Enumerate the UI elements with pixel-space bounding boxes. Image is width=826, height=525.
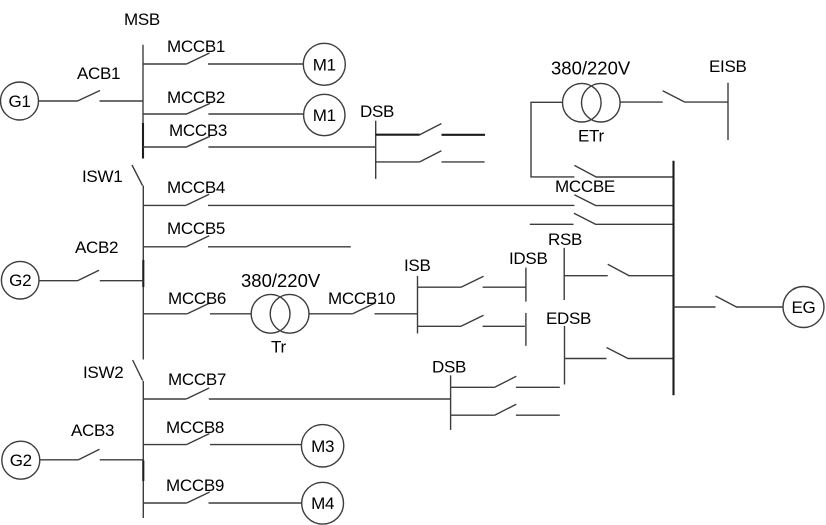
- breaker MCCB8: [143, 418, 224, 445]
- svg-text:EDSB: EDSB: [546, 309, 591, 328]
- switch RSB upper to emergency bus: [574, 213, 596, 224]
- transformer Tr 380/220V: [241, 270, 321, 357]
- svg-text:RSB: RSB: [548, 230, 582, 249]
- motor M1: [303, 43, 345, 85]
- svg-text:MCCB8: MCCB8: [166, 418, 224, 437]
- svg-text:M1: M1: [313, 106, 336, 125]
- wire MCCB1 to M1: [208, 63, 303, 65]
- bus section 2: [142, 186, 144, 360]
- svg-text:MCCB4: MCCB4: [167, 178, 225, 197]
- breaker MCCBE: [555, 165, 615, 196]
- bus IDSB: [509, 249, 547, 346]
- bus DSB upper: [360, 102, 394, 179]
- breaker ACB3: [71, 421, 114, 460]
- svg-text:MCCB5: MCCB5: [167, 219, 225, 238]
- breaker ACB2: [75, 238, 118, 281]
- switch MCCB4 to emergency bus: [574, 195, 596, 206]
- wire G2 to ACB3: [40, 459, 79, 461]
- wire ISB to IDSB upper: [483, 286, 526, 288]
- generator EG: [783, 287, 824, 328]
- breaker MCCB7: [143, 370, 226, 399]
- wire G1 to ACB1: [39, 100, 78, 102]
- breaker MCCB1: [143, 37, 225, 64]
- svg-text:G2: G2: [10, 451, 32, 470]
- wire EG switch to EG: [736, 306, 783, 308]
- bus DSB lower: [432, 358, 466, 430]
- wire ACB3 to bus: [100, 459, 144, 461]
- switch EDSB to emergency bus: [565, 348, 629, 359]
- wire RSB upper to emergency bus: [595, 223, 673, 225]
- wire to emergency bus: [596, 205, 674, 207]
- motor M1 lower: [304, 94, 345, 135]
- bus EDSB: [546, 309, 591, 385]
- bus EISB: [709, 57, 747, 140]
- wire MCCB4 long: [208, 204, 574, 206]
- svg-text:EG: EG: [792, 298, 816, 317]
- switch DSB feeder 2: [376, 151, 442, 162]
- svg-text:ACB1: ACB1: [77, 64, 120, 83]
- svg-text:MCCB2: MCCB2: [167, 88, 225, 107]
- svg-text:MCCBE: MCCBE: [555, 177, 615, 196]
- svg-text:ACB2: ACB2: [75, 238, 118, 257]
- switch DSB lower feeder 2: [451, 404, 517, 415]
- wire DSB feeder 1: [442, 134, 486, 136]
- wire DSB feeder 2: [442, 161, 485, 163]
- svg-text:MCCB3: MCCB3: [169, 121, 227, 140]
- svg-text:DSB: DSB: [432, 358, 466, 377]
- breaker MCCB6: [143, 289, 226, 314]
- wire MCCB10 to ISB: [375, 313, 418, 315]
- emergency bus: [672, 161, 674, 395]
- wire MCCB9 to M4: [209, 502, 302, 504]
- svg-text:380/220V: 380/220V: [551, 58, 631, 79]
- svg-text:MCCB10: MCCB10: [328, 289, 395, 308]
- svg-text:ISW1: ISW1: [82, 167, 122, 186]
- svg-text:M4: M4: [311, 494, 334, 513]
- isolator switch ISW2: [83, 360, 143, 382]
- svg-text:DSB: DSB: [360, 102, 394, 121]
- svg-text:M3: M3: [311, 437, 334, 456]
- svg-text:IDSB: IDSB: [509, 249, 547, 268]
- breaker MCCB4: [143, 178, 225, 205]
- breaker MCCB2: [143, 88, 225, 114]
- svg-text:380/220V: 380/220V: [241, 270, 321, 291]
- wire ETr primary L: [531, 102, 574, 177]
- svg-text:EISB: EISB: [709, 57, 747, 76]
- svg-text:MCCB7: MCCB7: [168, 370, 226, 389]
- switch DSB feeder 1: [376, 124, 442, 135]
- wire MCCB2 to M1: [208, 113, 303, 115]
- bus ISB: [404, 256, 431, 334]
- wire MCCB8 to M3: [210, 444, 302, 446]
- switch EG: [716, 296, 737, 307]
- wire to EISB bus: [685, 101, 728, 103]
- wire DSB lower feeder 2: [516, 414, 560, 416]
- svg-text:MCCB6: MCCB6: [168, 289, 226, 308]
- wire ETr to EISB switch: [620, 101, 663, 103]
- bus RSB: [548, 230, 582, 300]
- wire RSB to emergency bus: [628, 275, 673, 277]
- wire MCCB6 to Tr: [210, 313, 251, 315]
- wire DSB lower feeder 1: [516, 386, 560, 388]
- motor M3: [301, 425, 343, 467]
- wire EDSB to emergency bus: [628, 358, 674, 360]
- breaker MCCB10: [309, 289, 395, 314]
- wire MCCB7 to DSB lower: [209, 398, 451, 400]
- wire ACB2 to bus: [100, 280, 144, 282]
- transformer ETr 380/220V: [551, 58, 631, 146]
- wire ISB to IDSB lower: [483, 325, 525, 327]
- breaker MCCB5: [143, 219, 225, 247]
- svg-text:MSB: MSB: [124, 10, 160, 29]
- svg-text:Tr: Tr: [271, 338, 286, 357]
- switch to EISB: [663, 91, 685, 102]
- breaker ACB1: [77, 64, 120, 101]
- switch ISB feeder 1: [418, 276, 484, 287]
- wire MCCB3 to DSB: [208, 146, 375, 148]
- svg-text:ISB: ISB: [404, 256, 431, 275]
- wire MCCBE to emergency bus: [596, 176, 674, 178]
- svg-text:ISW2: ISW2: [83, 363, 123, 382]
- motor M4: [302, 482, 344, 524]
- generator G2 lower: [2, 441, 40, 479]
- svg-text:ETr: ETr: [578, 127, 604, 146]
- svg-text:MCCB1: MCCB1: [167, 37, 225, 56]
- isolator switch ISW1: [82, 165, 143, 186]
- generator G2: [1, 261, 39, 299]
- svg-text:ACB3: ACB3: [71, 421, 114, 440]
- svg-text:MCCB9: MCCB9: [166, 476, 224, 495]
- bus MSB: [124, 10, 160, 159]
- wire MCCB5 feeder: [208, 246, 351, 248]
- wire emergency bus to EG switch: [674, 306, 716, 308]
- generator G1: [1, 82, 39, 120]
- switch RSB to emergency bus: [564, 264, 629, 276]
- breaker MCCB9: [143, 476, 224, 503]
- wire ACB1 to MSB: [100, 100, 144, 102]
- svg-text:G2: G2: [9, 271, 31, 290]
- switch DSB lower feeder 1: [451, 376, 517, 387]
- breaker MCCB3: [143, 121, 227, 147]
- bus section 3: [142, 381, 144, 518]
- wire RSB upper feed: [530, 223, 574, 225]
- svg-text:M1: M1: [313, 55, 336, 74]
- wire G2 to ACB2: [39, 280, 78, 282]
- switch ISB feeder 2: [418, 315, 484, 326]
- svg-text:G1: G1: [8, 92, 30, 111]
